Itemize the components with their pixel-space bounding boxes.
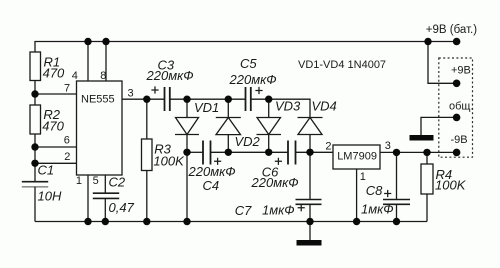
svg-text:LM7909: LM7909 xyxy=(337,151,377,163)
ground bar under C7 xyxy=(297,240,322,246)
wire pin4 to rail xyxy=(87,42,89,82)
svg-text:6: 6 xyxy=(64,135,70,147)
svg-text:4: 4 xyxy=(72,70,78,82)
plus sign C6 xyxy=(275,158,282,165)
wire C5 to VD4 top xyxy=(251,99,310,117)
node VD1 top xyxy=(183,96,190,103)
node rail R3 xyxy=(143,218,150,225)
svg-text:10Н: 10Н xyxy=(38,189,62,204)
terminal +9V xyxy=(453,80,461,88)
svg-text:VD1-VD4 1N4007: VD1-VD4 1N4007 xyxy=(298,59,386,71)
capacitor C8 xyxy=(383,200,410,205)
wire C8 to rail xyxy=(396,204,398,221)
wire rail to ground symbol xyxy=(309,222,311,241)
svg-text:C4: C4 xyxy=(203,178,220,193)
wire R4 top xyxy=(426,152,428,164)
node VD1 bottom row xyxy=(183,149,190,156)
svg-text:1мкФ: 1мкФ xyxy=(361,202,394,217)
svg-text:1: 1 xyxy=(76,175,82,187)
junction top rail pin4 xyxy=(84,38,91,45)
dashed connector box xyxy=(439,58,473,157)
svg-text:5: 5 xyxy=(93,175,99,187)
resistor R4 xyxy=(421,164,433,194)
node R4 top xyxy=(423,149,430,156)
svg-text:220мкФ: 220мкФ xyxy=(188,164,236,179)
node rail VD1 xyxy=(183,218,190,225)
wire LM7909 pin3 to -9V terminal xyxy=(380,151,457,153)
svg-text:100K: 100K xyxy=(153,154,185,169)
resistor R2 xyxy=(30,105,41,134)
plus sign C8 xyxy=(384,190,391,197)
svg-text:0,47: 0,47 xyxy=(109,200,135,215)
svg-text:VD4: VD4 xyxy=(312,99,337,114)
svg-text:+9В: +9В xyxy=(451,65,471,77)
resistor R1 xyxy=(30,52,41,81)
op-amp U1 NE555 box xyxy=(77,81,123,175)
wire R2 bottom to C1 xyxy=(34,134,36,181)
capacitor C2 xyxy=(93,193,119,198)
svg-text:VD3: VD3 xyxy=(275,99,301,114)
wire +9V battery branch xyxy=(428,42,457,84)
svg-text:C7: C7 xyxy=(235,203,252,218)
wire pin5 to C2 xyxy=(104,175,106,193)
diode VD3 xyxy=(257,99,282,152)
plus sign C4 xyxy=(214,158,221,165)
wire LM7909 pin1 to rail xyxy=(356,169,358,222)
capacitor C3 xyxy=(165,87,170,111)
svg-text:C8: C8 xyxy=(366,183,383,198)
diode VD2 xyxy=(216,99,241,152)
svg-text:3: 3 xyxy=(385,140,391,152)
plus sign C3 xyxy=(151,86,158,93)
wire pin8 to rail xyxy=(105,42,107,82)
wire C6 to LM7909 pin2 xyxy=(296,151,334,153)
svg-text:470: 470 xyxy=(42,119,64,134)
node VD4 bottom xyxy=(306,149,313,156)
svg-text:VD2: VD2 xyxy=(235,134,261,149)
svg-text:2: 2 xyxy=(325,141,331,153)
svg-text:-9В: -9В xyxy=(451,134,468,146)
node pin6 xyxy=(31,143,38,150)
plus sign C7 xyxy=(298,204,305,211)
wire C1 to ground rail xyxy=(34,187,36,222)
node VD3 bottom xyxy=(265,149,272,156)
resistor R3 xyxy=(142,139,153,171)
wire pin7 xyxy=(35,93,77,95)
svg-text:100K: 100K xyxy=(435,178,467,193)
node rail LM pin1 xyxy=(353,218,360,225)
svg-text:7: 7 xyxy=(64,83,70,95)
node rail pin1 xyxy=(84,218,91,225)
diode VD4 xyxy=(298,118,323,153)
svg-text:3: 3 xyxy=(128,88,134,100)
wire R4 bottom to rail xyxy=(426,194,428,222)
svg-text:NE555: NE555 xyxy=(81,94,115,106)
svg-text:2: 2 xyxy=(64,151,70,163)
wire top rail +9V xyxy=(35,42,456,53)
wire C4 to C6 xyxy=(211,151,289,153)
svg-text:220мкФ: 220мкФ xyxy=(251,175,299,190)
capacitor C6 xyxy=(288,141,296,165)
svg-text:общ.: общ. xyxy=(449,101,474,113)
wire C8 top xyxy=(396,152,398,199)
wire C3 to C5 xyxy=(170,98,246,100)
node rail C8 xyxy=(393,218,400,225)
svg-text:C2: C2 xyxy=(109,175,126,190)
capacitor C4 xyxy=(203,141,211,165)
terminal obshch xyxy=(453,114,461,122)
svg-text:1: 1 xyxy=(360,171,366,183)
wire R3 bottom to rail xyxy=(146,171,148,222)
plus sign C5 xyxy=(255,87,262,94)
node rail C7 xyxy=(306,218,313,225)
wire C7 to rail xyxy=(309,204,311,221)
wire pin6 xyxy=(35,146,77,148)
wire R1 bottom to R2 top xyxy=(34,81,36,106)
node VD2 top xyxy=(225,96,232,103)
capacitor C5 xyxy=(246,87,251,111)
svg-text:220мкФ: 220мкФ xyxy=(146,68,194,83)
wire C2 to rail xyxy=(104,198,106,221)
wire VD1 to C4 xyxy=(187,151,203,153)
terminal +9V battery xyxy=(453,38,461,46)
node pin2 C1 xyxy=(31,160,38,167)
node rail C2 xyxy=(102,218,109,225)
wire pin2 xyxy=(35,162,77,164)
node R1 R2 pin7 xyxy=(31,90,38,97)
wire C7 top xyxy=(309,152,311,199)
capacitor C7 xyxy=(296,200,322,205)
svg-text:VD1: VD1 xyxy=(194,100,219,115)
wire pin3 to C3 xyxy=(122,98,165,100)
terminal -9V xyxy=(453,149,461,157)
capacitor C1 xyxy=(22,182,48,187)
node pin3 R3 xyxy=(143,96,150,103)
diode VD1 xyxy=(175,99,199,221)
node VD3 top xyxy=(265,96,272,103)
voltage regulator U2 LM7909 box xyxy=(333,145,380,169)
wire bottom ground rail xyxy=(35,221,427,223)
junction top rail battery branch xyxy=(424,38,431,45)
svg-text:+9В (бат.): +9В (бат.) xyxy=(426,24,477,36)
svg-text:8: 8 xyxy=(100,70,106,82)
junction top rail pin8 xyxy=(102,38,109,45)
node VD2 bottom xyxy=(225,149,232,156)
wire R3 top xyxy=(146,99,148,139)
wire obshch terminal to ground xyxy=(421,117,457,135)
svg-text:C1: C1 xyxy=(38,163,55,178)
svg-text:470: 470 xyxy=(43,66,65,81)
svg-text:1мкФ: 1мкФ xyxy=(262,203,295,218)
wire pin1 to rail xyxy=(87,175,89,222)
node C8 top xyxy=(393,149,400,156)
ground bar obshch xyxy=(410,135,434,141)
svg-text:C5: C5 xyxy=(240,56,257,71)
svg-text:220мкФ: 220мкФ xyxy=(229,72,277,87)
